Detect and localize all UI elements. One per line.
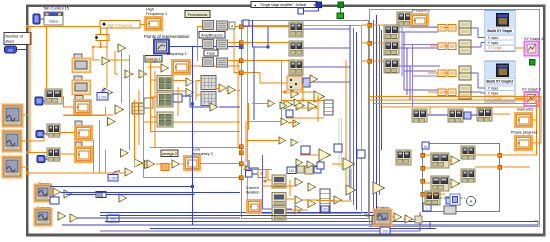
svg-text:Current: Current bbox=[246, 186, 260, 190]
svg-text:High Frequency: High Frequency bbox=[107, 24, 133, 28]
svg-text:Amplificacion: Amplificacion bbox=[201, 33, 223, 37]
svg-text:1.000: 1.000 bbox=[99, 96, 107, 100]
svg-text:Y Input: Y Input bbox=[488, 91, 498, 95]
svg-text:iteration: iteration bbox=[246, 191, 260, 195]
svg-text:"Single stage amplifier", Defa: "Single stage amplifier", Default bbox=[260, 3, 306, 7]
svg-text:100: 100 bbox=[322, 208, 328, 212]
svg-text:Points of representation: Points of representation bbox=[144, 34, 190, 39]
svg-text:XY Graph 5: XY Graph 5 bbox=[522, 88, 541, 92]
svg-text:Build XY Graph2: Build XY Graph2 bbox=[486, 80, 513, 84]
svg-text:Frequency: Frequency bbox=[412, 9, 430, 13]
svg-text:omega 1: omega 1 bbox=[146, 57, 161, 61]
svg-text:140: 140 bbox=[289, 169, 295, 173]
svg-text:d: d bbox=[231, 25, 233, 29]
svg-text:i: i bbox=[427, 206, 428, 211]
svg-text:X Input: X Input bbox=[488, 36, 499, 40]
svg-text:High: High bbox=[146, 8, 154, 12]
svg-text:Number of: Number of bbox=[5, 35, 24, 39]
svg-text:Build XY Graph: Build XY Graph bbox=[487, 29, 512, 33]
svg-text:Tab Control 15: Tab Control 15 bbox=[43, 6, 70, 11]
svg-text:Gain (db): Gain (db) bbox=[517, 108, 534, 112]
svg-text:Phase (degree): Phase (degree) bbox=[511, 131, 538, 135]
svg-text:Y Input: Y Input bbox=[488, 41, 498, 45]
svg-text:100: 100 bbox=[382, 230, 388, 234]
svg-text:◂: ◂ bbox=[254, 2, 256, 7]
svg-text:Frecuencia: Frecuencia bbox=[188, 12, 209, 17]
svg-text:steps: steps bbox=[5, 39, 14, 43]
svg-text:XY Graph: XY Graph bbox=[488, 46, 503, 50]
svg-text:1.000: 1.000 bbox=[109, 177, 117, 181]
svg-text:Fase: Fase bbox=[207, 51, 215, 55]
svg-text:omega 2: omega 2 bbox=[162, 152, 177, 156]
svg-text:X Input: X Input bbox=[488, 87, 499, 91]
svg-text:XY Graph 4: XY Graph 4 bbox=[524, 37, 543, 41]
svg-text:Low: Low bbox=[193, 148, 200, 152]
svg-text:▾: ▾ bbox=[314, 2, 316, 7]
svg-text:I32: I32 bbox=[8, 48, 13, 52]
svg-text:Value: Value bbox=[49, 19, 60, 24]
svg-text:A: A bbox=[470, 199, 473, 204]
svg-text:N: N bbox=[424, 144, 427, 149]
svg-text:Frequency 1: Frequency 1 bbox=[146, 12, 167, 16]
svg-text:frequency 1: frequency 1 bbox=[167, 52, 187, 56]
